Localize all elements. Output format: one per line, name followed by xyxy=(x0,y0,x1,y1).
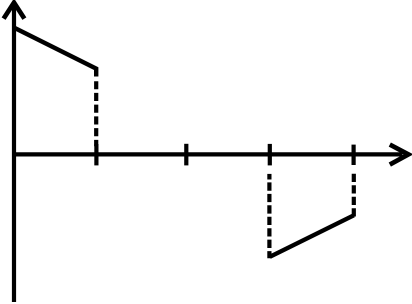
solid segment lower-right (rising toward tick 4) xyxy=(270,215,354,256)
dashed drop line at tick 1 xyxy=(94,81,98,146)
x-axis arrowhead xyxy=(390,145,409,165)
solid segment upper-left (descending from y-axis, with elbow stub) xyxy=(13,27,96,76)
tick 2 xyxy=(184,144,188,166)
y-axis arrowhead xyxy=(4,3,25,19)
tick 3 xyxy=(268,144,272,166)
dashed riser line below axis at tick 4 xyxy=(352,174,356,218)
y-axis xyxy=(12,5,16,302)
x-axis xyxy=(12,152,403,156)
tick 1 xyxy=(94,144,98,165)
tick 4 xyxy=(352,145,356,165)
dashed drop line below axis at tick 3 (short first dash) xyxy=(267,174,271,180)
dashed drop line below axis at tick 3 xyxy=(267,182,271,258)
